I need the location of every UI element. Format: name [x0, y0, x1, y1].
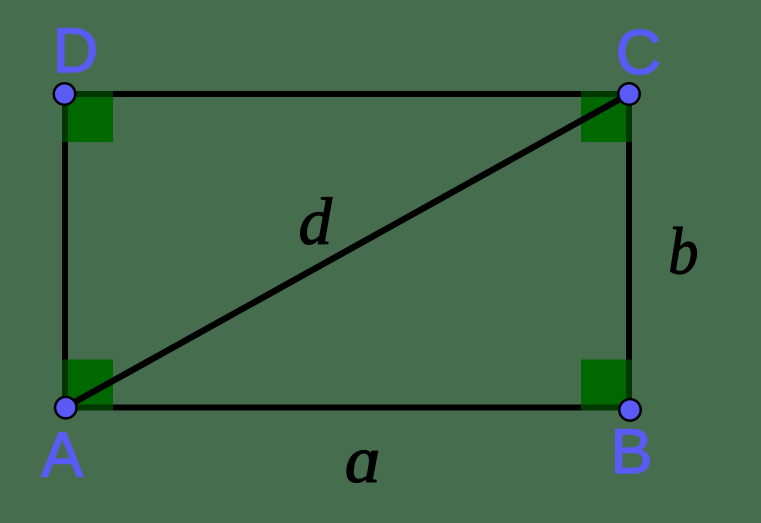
right-angle marker at C [581, 91, 632, 142]
diagonal d from A to C [65, 94, 629, 408]
rectangle ABCD sides (a, b and opposite) [65, 94, 629, 408]
svg-text:A: A [41, 420, 83, 490]
svg-text:b: b [668, 214, 698, 289]
point D [54, 83, 76, 105]
point B [619, 399, 641, 421]
svg-text:B: B [611, 417, 653, 487]
svg-text:C: C [616, 18, 662, 88]
svg-text:ɑ: ɑ [345, 422, 381, 497]
point A [55, 397, 77, 419]
svg-text:D: D [53, 16, 98, 86]
right-angle marker at B [581, 360, 632, 411]
point C [618, 83, 640, 105]
svg-text:d: d [299, 185, 333, 259]
right-angle marker at D [62, 91, 113, 142]
right-angle marker at A [62, 360, 113, 411]
